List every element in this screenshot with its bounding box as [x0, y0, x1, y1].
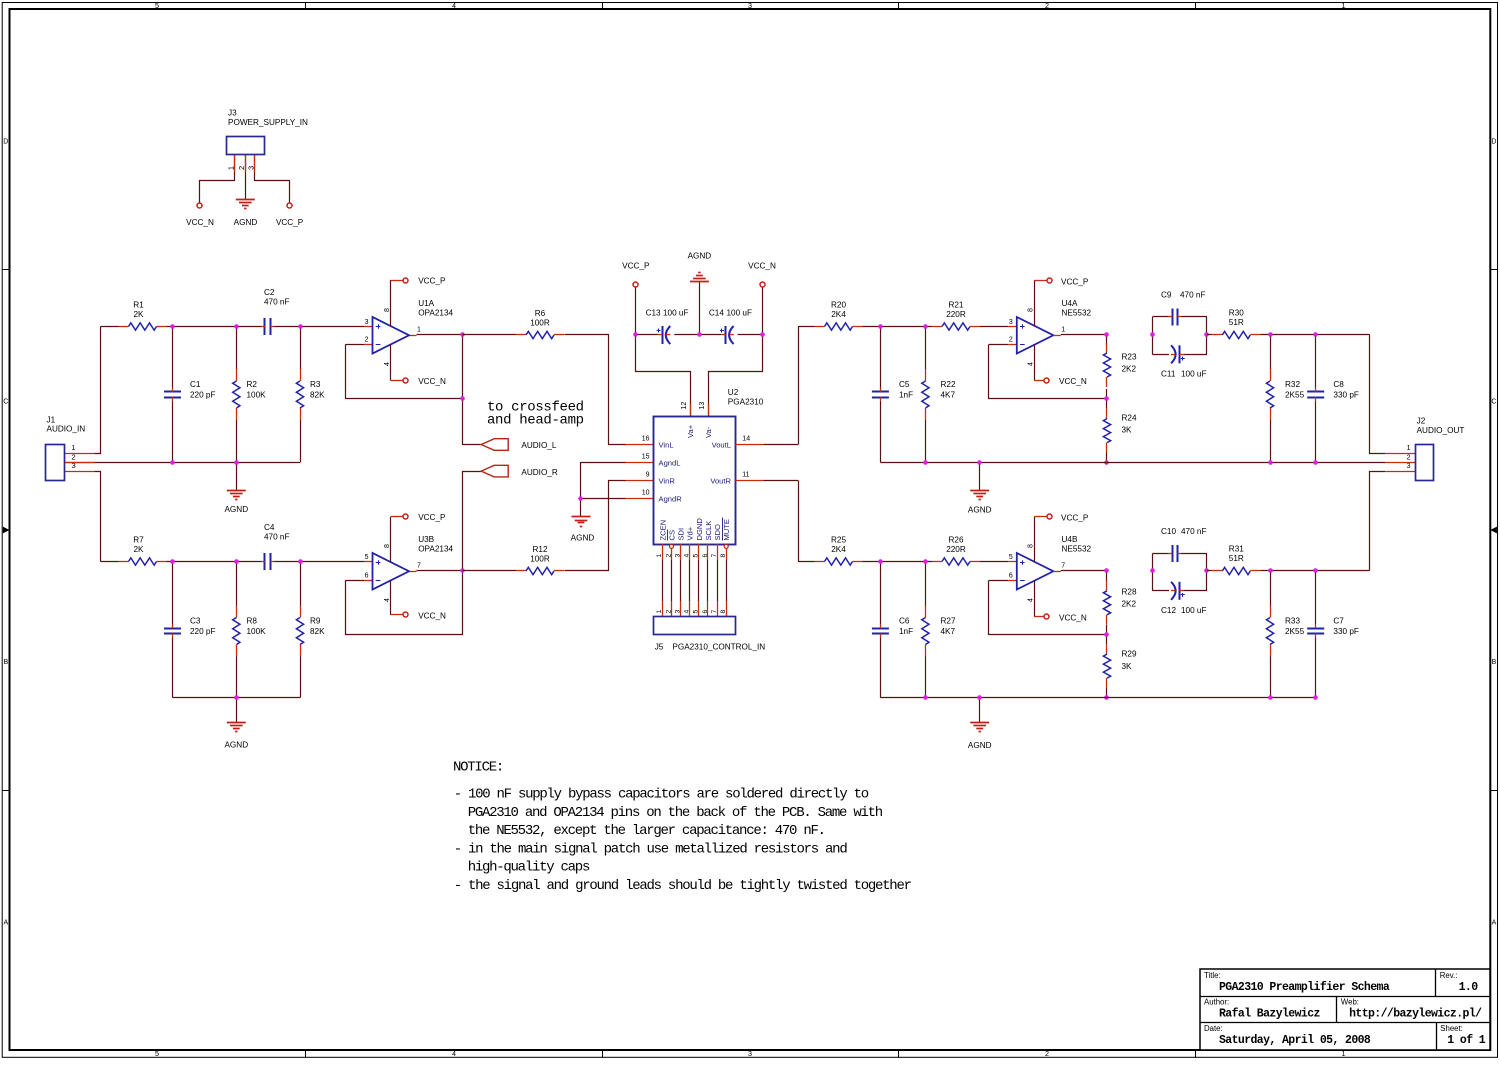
svg-text:2K4: 2K4 — [831, 545, 846, 554]
svg-text:OPA2134: OPA2134 — [418, 544, 453, 553]
svg-text:U2: U2 — [728, 388, 739, 397]
svg-text:PGA2310 and OPA2134 pins on th: PGA2310 and OPA2134 pins on the back of … — [468, 805, 883, 821]
svg-text:6: 6 — [702, 554, 709, 558]
svg-text:R21: R21 — [948, 301, 963, 310]
svg-text:14: 14 — [742, 436, 750, 443]
svg-text:- the signal and ground leads: - the signal and ground leads should be … — [454, 878, 912, 894]
svg-text:C13: C13 — [646, 308, 661, 317]
svg-text:SCLK: SCLK — [704, 521, 713, 541]
svg-text:4: 4 — [384, 598, 391, 602]
svg-text:1: 1 — [1342, 1, 1346, 10]
svg-text:51R: 51R — [1229, 318, 1244, 327]
svg-text:U4B: U4B — [1062, 535, 1078, 544]
svg-text:5: 5 — [1009, 554, 1013, 561]
svg-text:51R: 51R — [1229, 554, 1244, 563]
svg-text:2K2: 2K2 — [1122, 600, 1137, 609]
svg-text:2: 2 — [665, 554, 672, 558]
svg-text:16: 16 — [642, 436, 650, 443]
svg-text:VCC_N: VCC_N — [1059, 377, 1087, 386]
svg-text:470 nF: 470 nF — [264, 533, 290, 542]
svg-text:2: 2 — [1045, 1, 1049, 10]
svg-text:C4: C4 — [264, 523, 275, 532]
svg-text:Va+: Va+ — [686, 424, 695, 438]
svg-text:Rafal Bazylewicz: Rafal Bazylewicz — [1219, 1008, 1321, 1021]
svg-text:2: 2 — [365, 336, 369, 343]
svg-text:J2: J2 — [1417, 416, 1426, 425]
svg-text:3K: 3K — [1122, 426, 1133, 435]
svg-text:Saturday, April 05, 2008: Saturday, April 05, 2008 — [1219, 1034, 1371, 1047]
svg-text:AgndR: AgndR — [659, 495, 683, 504]
svg-text:82K: 82K — [310, 391, 325, 400]
svg-text:4: 4 — [1028, 362, 1035, 366]
svg-text:4: 4 — [684, 610, 691, 614]
svg-text:3: 3 — [674, 554, 681, 558]
svg-text:R2: R2 — [247, 380, 258, 389]
svg-text:J3: J3 — [228, 109, 237, 118]
svg-text:220 pF: 220 pF — [190, 391, 216, 400]
svg-text:J1: J1 — [47, 415, 56, 424]
svg-text:R8: R8 — [247, 616, 258, 625]
svg-text:AGND: AGND — [224, 505, 248, 514]
svg-text:3: 3 — [246, 166, 255, 170]
svg-text:5: 5 — [365, 554, 369, 561]
svg-text:AUDIO_IN: AUDIO_IN — [47, 424, 86, 433]
svg-text:C1: C1 — [190, 380, 201, 389]
svg-text:3: 3 — [674, 610, 681, 614]
svg-text:AGND: AGND — [234, 218, 258, 227]
svg-text:6: 6 — [365, 572, 369, 579]
svg-text:7: 7 — [1061, 563, 1065, 570]
svg-text:VCC_P: VCC_P — [418, 276, 446, 285]
svg-text:B: B — [1492, 659, 1497, 666]
svg-text:220 pF: 220 pF — [190, 627, 216, 636]
svg-text:AUDIO_OUT: AUDIO_OUT — [1417, 426, 1465, 435]
svg-text:C: C — [3, 399, 8, 406]
svg-text:NOTICE:: NOTICE: — [453, 759, 503, 775]
svg-text:100 uF: 100 uF — [727, 308, 753, 317]
svg-text:B: B — [3, 659, 8, 666]
svg-text:12: 12 — [681, 402, 688, 410]
svg-text:VoutL: VoutL — [712, 441, 731, 450]
svg-text:R23: R23 — [1122, 352, 1137, 361]
svg-text:1: 1 — [656, 610, 663, 614]
svg-text:R32: R32 — [1285, 380, 1300, 389]
svg-text:high-quality caps: high-quality caps — [468, 860, 590, 876]
svg-text:the NE5532, except the larger: the NE5532, except the larger capacitanc… — [468, 823, 825, 839]
svg-text:D: D — [1491, 139, 1496, 146]
svg-text:4: 4 — [684, 554, 691, 558]
svg-text:3K: 3K — [1122, 662, 1133, 671]
svg-text:100 uF: 100 uF — [1181, 606, 1207, 615]
svg-text:Vd+: Vd+ — [686, 526, 695, 540]
svg-text:C8: C8 — [1333, 380, 1344, 389]
svg-text:8: 8 — [384, 308, 391, 312]
svg-text:1: 1 — [72, 445, 76, 452]
svg-text:U3B: U3B — [418, 535, 434, 544]
svg-text:1nF: 1nF — [899, 391, 913, 400]
svg-text:CS: CS — [668, 530, 677, 541]
svg-text:2: 2 — [1009, 336, 1013, 343]
svg-text:Va-: Va- — [704, 426, 713, 438]
svg-text:4: 4 — [384, 362, 391, 366]
svg-text:2: 2 — [1045, 1049, 1049, 1058]
svg-text:and head-amp: and head-amp — [487, 412, 584, 428]
svg-text:4: 4 — [452, 1, 456, 10]
svg-text:C11: C11 — [1161, 370, 1176, 379]
svg-text:R3: R3 — [310, 380, 321, 389]
svg-text:R26: R26 — [948, 536, 963, 545]
svg-text:11: 11 — [742, 472, 749, 479]
svg-text:AGND: AGND — [224, 741, 248, 750]
svg-text:82K: 82K — [310, 627, 325, 636]
svg-text:8: 8 — [1028, 544, 1035, 548]
svg-text:R6: R6 — [535, 309, 546, 318]
svg-text:A: A — [3, 920, 8, 927]
svg-text:R1: R1 — [133, 301, 144, 310]
svg-text:8: 8 — [1028, 308, 1035, 312]
svg-text:AUDIO_L: AUDIO_L — [521, 441, 556, 450]
svg-text:VCC_N: VCC_N — [186, 218, 214, 227]
svg-text:10: 10 — [642, 490, 650, 497]
svg-text:1nF: 1nF — [899, 627, 913, 636]
svg-text:NE5532: NE5532 — [1062, 544, 1092, 553]
svg-text:5: 5 — [155, 1049, 159, 1058]
svg-text:AGND: AGND — [968, 741, 992, 750]
svg-text:Web:: Web: — [1341, 998, 1359, 1007]
svg-text:1: 1 — [656, 554, 663, 558]
svg-text:7: 7 — [417, 563, 421, 570]
svg-text:VCC_N: VCC_N — [1059, 613, 1087, 622]
svg-text:DGND: DGND — [695, 518, 704, 541]
svg-text:VCC_P: VCC_P — [276, 218, 304, 227]
svg-text:3: 3 — [365, 319, 369, 326]
svg-text:8: 8 — [720, 554, 727, 558]
svg-text:R22: R22 — [941, 380, 956, 389]
svg-text:R24: R24 — [1122, 414, 1137, 423]
svg-text:R25: R25 — [831, 536, 846, 545]
svg-text:C: C — [1491, 399, 1496, 406]
svg-text:470 nF: 470 nF — [1180, 290, 1206, 299]
svg-text:8: 8 — [720, 610, 727, 614]
svg-text:Date:: Date: — [1204, 1024, 1223, 1033]
svg-text:100 uF: 100 uF — [663, 308, 689, 317]
svg-text:100K: 100K — [247, 627, 267, 636]
svg-text:220R: 220R — [946, 545, 966, 554]
svg-text:3: 3 — [1009, 319, 1013, 326]
svg-text:3: 3 — [748, 1049, 752, 1058]
svg-text:6: 6 — [1009, 572, 1013, 579]
svg-text:9: 9 — [646, 472, 650, 479]
svg-text:VCC_P: VCC_P — [1061, 277, 1089, 286]
svg-text:470 nF: 470 nF — [1181, 527, 1207, 536]
svg-text:330 pF: 330 pF — [1333, 627, 1359, 636]
svg-text:SDO: SDO — [713, 524, 722, 541]
svg-text:- in the main signal patch use: - in the main signal patch use metallize… — [454, 841, 848, 857]
svg-text:PGA2310: PGA2310 — [728, 398, 764, 407]
svg-text:U1A: U1A — [418, 299, 434, 308]
svg-text:R30: R30 — [1229, 309, 1244, 318]
svg-text:3: 3 — [72, 461, 76, 470]
svg-text:R12: R12 — [532, 545, 547, 554]
svg-text:VCC_N: VCC_N — [748, 262, 776, 271]
svg-text:OPA2134: OPA2134 — [418, 308, 453, 317]
svg-text:6: 6 — [702, 610, 709, 614]
svg-text:2K55: 2K55 — [1285, 627, 1305, 636]
svg-text:VCC_P: VCC_P — [1061, 513, 1089, 522]
svg-text:5: 5 — [693, 610, 700, 614]
svg-text:2: 2 — [237, 166, 246, 170]
svg-text:1: 1 — [417, 327, 421, 334]
svg-text:VCC_P: VCC_P — [418, 513, 446, 522]
svg-text:VCC_N: VCC_N — [418, 611, 446, 620]
svg-text:http://bazylewicz.pl/: http://bazylewicz.pl/ — [1349, 1008, 1482, 1021]
svg-text:PGA2310 Preamplifier Schema: PGA2310 Preamplifier Schema — [1219, 981, 1390, 994]
svg-text:VinL: VinL — [659, 441, 674, 450]
svg-text:C12: C12 — [1161, 606, 1176, 615]
svg-text:ZCEN: ZCEN — [658, 520, 667, 541]
svg-text:VCC_P: VCC_P — [622, 262, 650, 271]
svg-text:3: 3 — [748, 1, 752, 10]
svg-text:100R: 100R — [530, 319, 550, 328]
svg-text:2K2: 2K2 — [1122, 364, 1137, 373]
svg-text:AGND: AGND — [688, 252, 712, 261]
svg-text:4K7: 4K7 — [941, 627, 956, 636]
svg-text:7: 7 — [711, 610, 718, 614]
svg-text:2: 2 — [1407, 454, 1411, 461]
svg-text:AgndL: AgndL — [659, 459, 681, 468]
svg-text:1.0: 1.0 — [1459, 981, 1479, 994]
svg-text:4: 4 — [1028, 598, 1035, 602]
svg-text:C3: C3 — [190, 616, 201, 625]
svg-text:1: 1 — [229, 166, 236, 170]
svg-text:7: 7 — [711, 554, 718, 558]
svg-text:A: A — [1492, 920, 1497, 927]
svg-text:C7: C7 — [1333, 616, 1344, 625]
svg-text:2K4: 2K4 — [831, 310, 846, 319]
svg-text:2K: 2K — [133, 545, 144, 554]
svg-text:R31: R31 — [1229, 545, 1244, 554]
svg-text:SDI: SDI — [677, 528, 686, 541]
svg-text:Sheet:: Sheet: — [1440, 1024, 1463, 1033]
svg-text:AGND: AGND — [571, 534, 595, 543]
svg-text:U4A: U4A — [1062, 299, 1078, 308]
svg-text:2K55: 2K55 — [1285, 391, 1305, 400]
svg-text:100R: 100R — [530, 555, 550, 564]
svg-text:R7: R7 — [133, 536, 144, 545]
svg-text:100K: 100K — [247, 391, 267, 400]
svg-text:C6: C6 — [899, 616, 910, 625]
svg-text:2: 2 — [665, 610, 672, 614]
svg-text:C5: C5 — [899, 380, 910, 389]
svg-text:15: 15 — [642, 454, 650, 461]
svg-text:D: D — [3, 139, 8, 146]
svg-text:2K: 2K — [133, 310, 144, 319]
svg-text:8: 8 — [384, 544, 391, 548]
svg-text:R33: R33 — [1285, 616, 1300, 625]
svg-text:R9: R9 — [310, 616, 321, 625]
svg-text:AUDIO_R: AUDIO_R — [521, 468, 557, 477]
svg-text:R20: R20 — [831, 301, 846, 310]
svg-text:C10: C10 — [1161, 527, 1176, 536]
svg-text:PGA2310_CONTROL_IN: PGA2310_CONTROL_IN — [672, 643, 765, 652]
svg-text:1: 1 — [1061, 327, 1065, 334]
svg-text:NE5532: NE5532 — [1062, 308, 1092, 317]
svg-text:3: 3 — [1407, 463, 1411, 470]
svg-text:330 pF: 330 pF — [1333, 391, 1359, 400]
svg-text:Title:: Title: — [1204, 971, 1221, 980]
svg-text:1 of 1: 1 of 1 — [1447, 1034, 1486, 1047]
svg-text:220R: 220R — [946, 310, 966, 319]
svg-text:4K7: 4K7 — [941, 391, 956, 400]
svg-text:1: 1 — [1407, 445, 1411, 452]
svg-text:R29: R29 — [1122, 649, 1137, 658]
svg-text:VCC_N: VCC_N — [418, 377, 446, 386]
svg-text:Author:: Author: — [1204, 998, 1229, 1007]
svg-text:- 100 nF supply bypass capacit: - 100 nF supply bypass capacitors are so… — [454, 787, 869, 803]
svg-text:VinR: VinR — [659, 477, 676, 486]
svg-text:R27: R27 — [941, 616, 956, 625]
svg-text:Rev.:: Rev.: — [1440, 971, 1458, 980]
svg-text:AGND: AGND — [968, 506, 992, 515]
svg-text:100 uF: 100 uF — [1181, 370, 1207, 379]
svg-text:4: 4 — [452, 1049, 456, 1058]
svg-text:VoutR: VoutR — [710, 477, 731, 486]
svg-text:5: 5 — [155, 1, 159, 10]
svg-text:5: 5 — [693, 554, 700, 558]
svg-text:2: 2 — [72, 452, 76, 461]
svg-text:POWER_SUPPLY_IN: POWER_SUPPLY_IN — [228, 118, 308, 127]
svg-text:J5: J5 — [655, 643, 664, 652]
svg-text:C2: C2 — [264, 288, 275, 297]
svg-text:C14: C14 — [709, 308, 724, 317]
svg-text:MUTE: MUTE — [722, 519, 731, 541]
svg-text:C9: C9 — [1161, 290, 1172, 299]
svg-text:13: 13 — [699, 402, 706, 410]
svg-text:R28: R28 — [1122, 588, 1137, 597]
svg-text:470 nF: 470 nF — [264, 298, 290, 307]
